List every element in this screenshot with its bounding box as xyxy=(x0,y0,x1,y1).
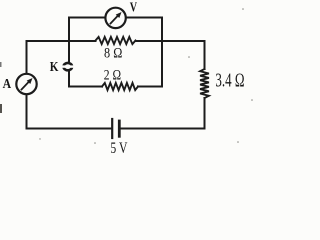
svg-text:K: K xyxy=(50,59,59,74)
scan speckles xyxy=(0,8,253,144)
wire top rail right segment (8-ohm to top-right corner) xyxy=(136,40,205,42)
resistor R3 3.4 ohm zigzag xyxy=(200,69,209,98)
wire node C vertical (voltmeter wire through top rail down to 2-ohm rail) xyxy=(161,18,163,87)
voltmeter needle xyxy=(111,15,120,24)
resistor R1 8 ohm zigzag xyxy=(96,37,136,44)
svg-text:5 V: 5 V xyxy=(110,140,127,155)
svg-text:8 Ω: 8 Ω xyxy=(104,45,122,61)
wire left branch vertical upper (top-left corner to ammeter) xyxy=(26,41,28,74)
ammeter needle xyxy=(22,81,31,90)
wire voltmeter branch left (node B to voltmeter) xyxy=(69,17,105,19)
ammeter U-A xyxy=(16,74,36,94)
wire right branch vertical upper (top-right corner down to 3.4-ohm) xyxy=(204,41,206,69)
switch K gap xyxy=(61,65,76,67)
resistor R2 2 ohm zigzag xyxy=(102,83,138,90)
voltmeter U-V xyxy=(105,8,125,28)
svg-text:A: A xyxy=(3,75,12,91)
wire voltmeter branch right (voltmeter to node C vertical) xyxy=(127,17,163,19)
svg-text:3.4 Ω: 3.4 Ω xyxy=(215,69,244,92)
svg-text:2 Ω: 2 Ω xyxy=(104,66,122,83)
wire node B vertical upper (voltmeter wire down to top rail and switch) xyxy=(68,18,70,63)
wire right branch vertical lower (3.4-ohm to bottom rail) xyxy=(204,98,206,129)
svg-text:V: V xyxy=(130,0,138,15)
wire top rail left segment (left corner to 8-ohm) xyxy=(27,40,96,42)
wire bottom rail left (to battery positive plate) xyxy=(27,128,112,130)
wire switch to 2-ohm rail xyxy=(68,71,70,87)
battery negative plate xyxy=(118,121,121,136)
switch K plug body xyxy=(64,63,73,70)
wire 2-ohm rail right xyxy=(138,86,162,88)
wire left branch vertical lower (ammeter to bottom-left corner) xyxy=(26,95,28,129)
wire bottom rail right (battery to bottom-right corner) xyxy=(121,128,205,130)
battery positive plate xyxy=(111,119,113,138)
wire 2-ohm rail left xyxy=(69,86,102,88)
